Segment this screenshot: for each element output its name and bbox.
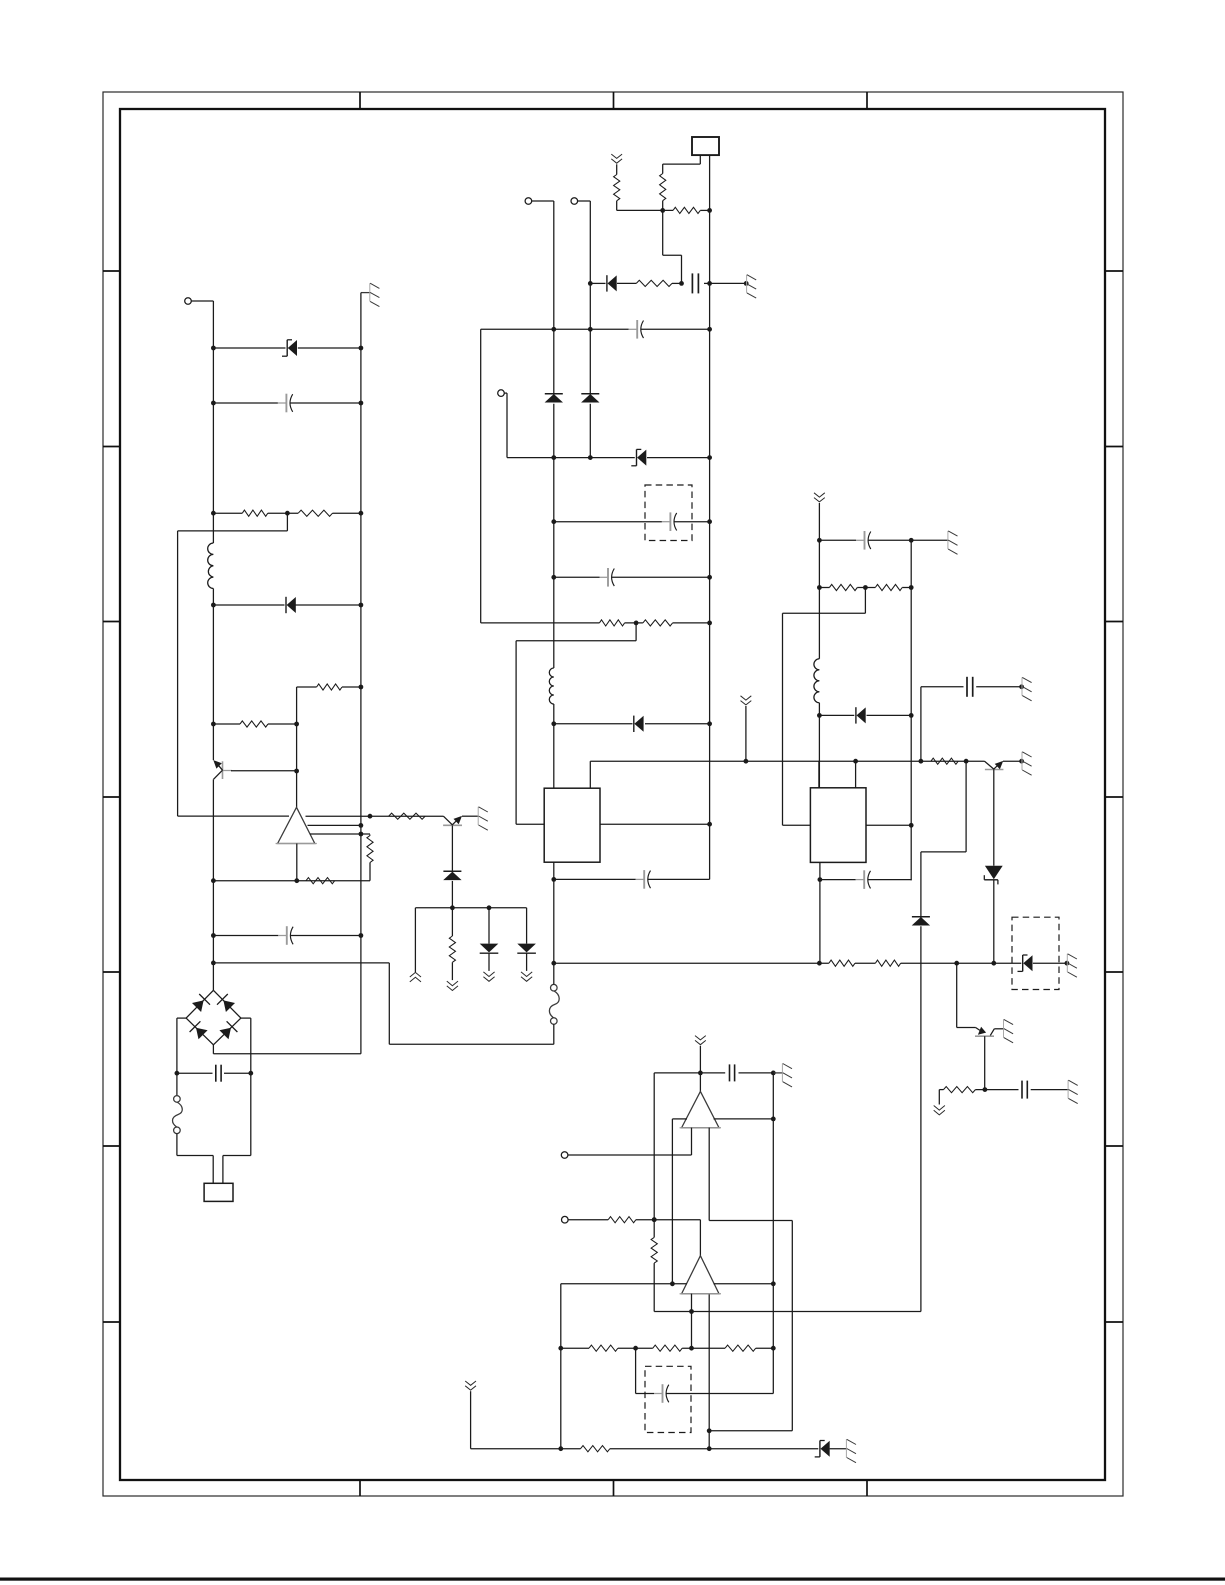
wire row 724 D8 (554, 723, 710, 725)
resistor R24 (608, 1217, 636, 1223)
capacitor C1 (278, 394, 293, 413)
wire switch top lead (176, 1073, 178, 1096)
ground G5b (earth) (1022, 752, 1032, 775)
connector J1 (204, 1183, 233, 1201)
wire U3 bottom pin (818, 862, 823, 963)
resistor R22 (725, 1345, 756, 1351)
shield box DB2 (dashed) (1012, 917, 1059, 989)
ground chevron CG3 (814, 493, 825, 502)
wire cap row C10 (820, 879, 911, 882)
ground G6 (earth) (1067, 954, 1077, 977)
wire P4 leg (507, 393, 710, 460)
wire stub diode D4 (526, 908, 528, 944)
resistor R4 (240, 721, 268, 727)
wire base column (294, 724, 299, 807)
wire column 553 mid (551, 327, 556, 668)
wire S2 top lead (553, 963, 555, 984)
wire cap row C11 (921, 684, 1024, 689)
capacitor C14 (1022, 1081, 1027, 1099)
capacitor C11 (967, 677, 973, 697)
wire ZD5 to row 963 (993, 880, 995, 963)
wire box U2 top pin2 (589, 761, 591, 788)
wire row 513 (213, 511, 361, 516)
capacitor C8 (636, 870, 651, 889)
wire chevron stub CD4 (938, 1090, 940, 1105)
ground G8 (earth) (773, 1064, 792, 1087)
wire U1 right line 2 (308, 824, 361, 826)
wire cap row C3 (175, 1071, 251, 1076)
wire bridge right leg (248, 1018, 253, 1155)
diode D8 (634, 716, 644, 732)
capacitor C3 (216, 1065, 221, 1082)
wire U4 apex lead (699, 1073, 701, 1092)
wire left col 480 (480, 329, 482, 623)
diode D3 (480, 944, 499, 954)
wire U3 top pin1 (818, 761, 820, 788)
terminal P1 (185, 298, 214, 305)
wire net 966 (921, 761, 966, 917)
wire Q4 emitter down (984, 1036, 986, 1089)
diode D2 (443, 871, 461, 880)
shield box DB1 (dashed) (645, 485, 692, 541)
capacitor C5 (629, 320, 644, 339)
wire U5 input row (561, 1281, 687, 1286)
wire U1 right line 3 (310, 834, 370, 836)
wire col 561 (558, 1284, 563, 1451)
IC U2 (544, 788, 600, 862)
capacitor C12 (654, 1384, 669, 1403)
op-amp U4 (680, 1091, 721, 1127)
terminal P2 (525, 198, 554, 205)
resistor R6 (367, 836, 373, 863)
wire row 963 main (551, 961, 1069, 966)
wire row 577 (554, 576, 710, 578)
terminal P5 (561, 1152, 568, 1159)
resistor R1 (242, 510, 267, 516)
wire D2 to row 908 (451, 881, 453, 908)
ground G5 (earth) (1022, 677, 1032, 700)
wire cap row C1 (213, 402, 361, 404)
wire cap row C8 (554, 878, 710, 880)
resistor R25 (651, 1237, 657, 1263)
wire col 654 (652, 1073, 657, 1238)
wire row 1090 (939, 1087, 1067, 1092)
wire Q4 base net (957, 963, 976, 1027)
ground chevron CD2 (483, 972, 494, 981)
resistor R23 (581, 1446, 610, 1452)
inductor L2 (549, 668, 554, 704)
switch S1 (173, 1096, 183, 1134)
ground chevron CG2 (741, 696, 752, 705)
transistor Q2 (443, 816, 462, 825)
wire U5 base pin left (689, 1294, 694, 1351)
terminal P6 (562, 1216, 609, 1223)
resistor R18 (829, 584, 857, 590)
wire col 819 lower (817, 703, 822, 788)
wire U4 output right (714, 1117, 776, 1122)
wire col 819 upper (817, 503, 822, 659)
diode D5 (545, 394, 563, 403)
wire row 687 (297, 687, 361, 724)
wire Q2 emitter to ground (462, 815, 478, 817)
wire rail left B (359, 293, 364, 1054)
wire column 590 low (589, 404, 591, 458)
resistor R26 (944, 1087, 976, 1093)
wire stub chevron A (414, 908, 416, 972)
wire stub to box U2 left (516, 623, 636, 824)
wire stub 681 (663, 210, 682, 283)
capacitor C2 (278, 926, 293, 945)
wire U4 base pin detour (707, 1128, 793, 1434)
diode D1 (286, 597, 296, 613)
resistor R14 (643, 620, 673, 626)
bridge rectifier BR1 (186, 990, 241, 1045)
ground G9 (earth) (1004, 1019, 1014, 1042)
capacitor C10 (856, 870, 871, 889)
ground chevron CD1 (447, 981, 458, 990)
inductor L1 (208, 543, 214, 589)
wire U5 output right (714, 1283, 774, 1285)
ground chevron CG1 (611, 154, 622, 163)
wire box A1 bottom left (663, 155, 701, 173)
capacitor C6 (662, 512, 677, 531)
wire row 908 (415, 905, 526, 910)
wire stub to box U3 left (783, 588, 866, 826)
wire column 553 upper (553, 201, 555, 393)
wire row 521 (554, 521, 710, 523)
switch S2 (549, 984, 559, 1024)
wire rail 773 (771, 1073, 776, 1394)
wire S2 bottom lead (553, 1024, 555, 1044)
resistor R10 (673, 207, 700, 213)
resistor R19 (875, 584, 902, 590)
wire R12 bottom (662, 201, 664, 211)
resistor R20 (589, 1345, 618, 1351)
wire col 654 low (653, 1263, 655, 1311)
ground chevron CD3 (521, 972, 532, 981)
wire row 715 (819, 714, 911, 716)
wire R8 lower (451, 962, 453, 980)
transistor Q1 (213, 760, 296, 779)
wire stub resistor (451, 908, 453, 936)
resistor R21 (653, 1345, 682, 1351)
wire Q2 collector (451, 825, 453, 871)
wire D4 lower (526, 954, 528, 971)
wire row 210 (617, 201, 710, 213)
wire CG1 lead (616, 164, 618, 174)
wire CG2 lead (745, 706, 747, 761)
op-amp U5 (680, 1256, 721, 1294)
resistor R16 (829, 960, 855, 966)
terminal P4 (498, 390, 507, 397)
wire column 590 (588, 201, 593, 393)
wire rail 709 (707, 155, 712, 879)
wire column 553 low (551, 704, 556, 788)
wire stub to op-amp input (178, 513, 289, 816)
wire row 587 (819, 585, 911, 590)
IC U3 (810, 788, 866, 863)
zener ZD1 (282, 340, 297, 356)
resistor R5 (389, 813, 426, 819)
wire bridge stubs (177, 1018, 361, 1054)
zener ZD3 (1018, 955, 1033, 971)
wire U5 base pin right (707, 1294, 712, 1451)
resistor R7 (306, 878, 335, 884)
shield box DB3 (dashed) (645, 1366, 691, 1432)
wire zener row (213, 347, 361, 349)
diode D4 (517, 944, 536, 954)
wire bridge left leg (176, 1018, 178, 1073)
zener ZD4 (815, 1441, 830, 1457)
wire CG5 lead (471, 1391, 846, 1449)
resistor R3 (317, 684, 342, 690)
zener ZD5 (984, 866, 1002, 885)
wire CG4 lead (699, 1046, 701, 1073)
transistor Q4 (975, 1027, 1003, 1036)
wire diode row D1 (213, 604, 361, 606)
wire U2 bottom pin (551, 862, 556, 963)
capacitor C4 (692, 273, 698, 293)
resistor R9 (636, 280, 672, 286)
wire row 623 (481, 621, 710, 626)
capacitor C9 (856, 531, 871, 550)
resistor R8 (449, 936, 455, 962)
wire U4 input left (672, 1119, 687, 1284)
wire row 1348 (561, 1346, 774, 1351)
ground chevron CG5 (465, 1381, 476, 1390)
wire op-amp U1 output row (306, 814, 444, 819)
bottom page edge line (0, 1578, 1225, 1581)
wire long row 761 (590, 759, 1024, 764)
inductor L3 (814, 659, 820, 703)
wire D3 lower (488, 954, 490, 971)
resistor R13 (599, 620, 624, 626)
op-amp U1 (276, 807, 317, 843)
ground G1 (earth) (361, 283, 380, 306)
wire row 1311 (654, 1311, 921, 1313)
zener ZD2 (631, 449, 646, 465)
border frame (103, 92, 1123, 1496)
wire R24 to col (636, 1217, 701, 1255)
wire col 921 upper (920, 687, 922, 761)
capacitor C7 (600, 568, 615, 587)
ground chevron CG4 (695, 1036, 706, 1045)
wire cap row C12 (636, 1348, 774, 1393)
resistor R2 (298, 510, 332, 516)
wire row 283 (590, 281, 748, 286)
diode D10 (912, 917, 930, 926)
resistor R11 (614, 175, 620, 201)
wire U3 right pin (866, 824, 911, 826)
ground G10 (earth) (846, 1439, 856, 1462)
diode D7 (607, 275, 617, 291)
ground chevron CD4 (934, 1106, 945, 1115)
wire row 1155 (568, 1128, 692, 1155)
terminal P3 (571, 198, 590, 205)
wire rail 911 (909, 540, 914, 880)
wire row 329 (481, 328, 710, 330)
ground chevron up CU1 (410, 972, 421, 982)
wire connector leads (213, 1156, 223, 1184)
resistor R17 (875, 960, 900, 966)
ground G7 (earth) (1068, 1080, 1078, 1103)
ground G4 (earth) (948, 531, 958, 554)
wire row 1073 (654, 1071, 775, 1076)
wire cap row C2 (213, 935, 361, 937)
ground G2 (earth) (747, 275, 757, 298)
wire cap row C9 (819, 538, 947, 543)
resistor R15 (931, 758, 958, 764)
wire rail left A (211, 301, 216, 543)
wire switch bottom lead (177, 1133, 251, 1155)
wire U1 base pin (296, 844, 298, 881)
diode D6 (581, 394, 599, 403)
diode D9 (856, 707, 866, 723)
wire rail left A lower (211, 589, 216, 991)
wire col 921 to row 1311 (920, 926, 922, 1311)
capacitor C13 (730, 1064, 735, 1081)
resistor R12 (660, 174, 666, 201)
wire R6 bottom leg (213, 863, 370, 884)
wire stub diode D3 (488, 908, 490, 944)
transistor Q3 (985, 761, 1004, 770)
module A1 (top) (692, 137, 719, 155)
wire U2 right pin (600, 823, 710, 825)
wire Q3 collector (993, 769, 995, 865)
wire U3 top pin2 (855, 761, 857, 788)
wire row 724 (213, 722, 299, 727)
wire row 963 left (213, 963, 553, 1044)
ground G3 (earth) (478, 807, 488, 830)
